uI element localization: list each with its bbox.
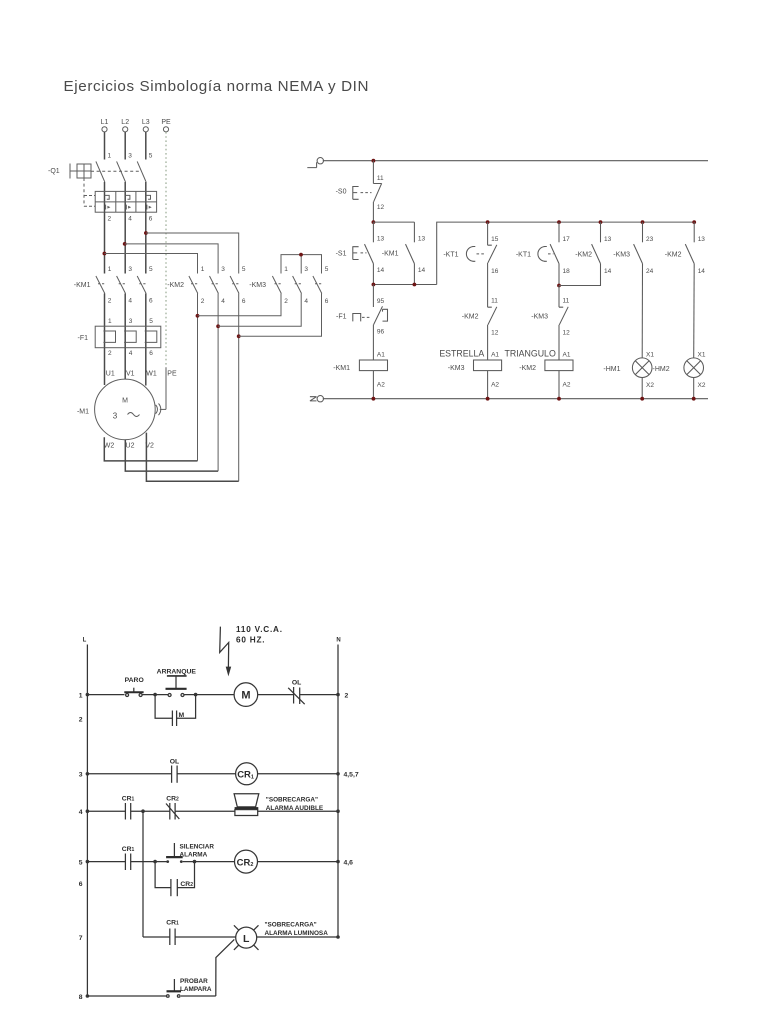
svg-text:A2: A2 — [491, 381, 499, 388]
wire S0 top lead — [372, 161, 374, 184]
rung number 7 — [79, 935, 83, 942]
pin 95 — [377, 298, 385, 305]
wire rung1 a — [87, 694, 124, 696]
KM1 pins 135 — [108, 266, 153, 273]
contact CR1 NO rung5 — [125, 854, 130, 871]
pushbutton S1 NO — [353, 222, 374, 264]
svg-text:-F1: -F1 — [78, 335, 89, 342]
motor bottom terminal labels — [104, 443, 154, 450]
KM1 pole blades — [96, 276, 147, 294]
node branch M left — [153, 693, 157, 697]
node KT1b bottom — [557, 284, 561, 288]
svg-text:LAMPARA: LAMPARA — [180, 986, 212, 993]
node rail N rung7 — [336, 935, 340, 939]
Q1 trip unit block — [95, 191, 156, 212]
svg-text:L3: L3 — [142, 119, 150, 126]
svg-text:11: 11 — [377, 175, 384, 182]
wire KT1 top lead — [487, 222, 489, 245]
wire KM3b to lamp — [641, 264, 643, 358]
wire L3 tap to KM2 pole5 — [146, 233, 239, 274]
svg-text:15: 15 — [491, 236, 499, 243]
label PARO — [125, 677, 144, 684]
node rail N rung3 — [336, 772, 340, 776]
Q1 magnetic elements — [106, 205, 152, 210]
svg-text:1: 1 — [108, 318, 112, 325]
coil KM1 — [359, 360, 387, 371]
svg-text:2: 2 — [108, 216, 112, 223]
svg-text:-KM2: -KM2 — [665, 252, 682, 259]
svg-text:7: 7 — [79, 935, 83, 942]
wire rung4 c — [175, 810, 235, 812]
timed contact KT1 NO — [538, 244, 559, 264]
contact CR2 NC rung4 — [166, 803, 179, 820]
label 457 right — [344, 772, 359, 779]
wire W2 run — [104, 437, 197, 461]
pin 12 KM3c — [563, 330, 571, 337]
wire coil KM1 to rail — [372, 371, 374, 399]
svg-text:3: 3 — [79, 772, 83, 779]
svg-text:-KM2: -KM2 — [462, 313, 479, 320]
pin 11 KM2 — [491, 298, 498, 305]
wire rung1 b — [142, 694, 168, 696]
svg-text:1: 1 — [201, 266, 205, 273]
terminal N rail — [310, 396, 324, 402]
pin A1 KM1 — [377, 351, 385, 358]
wire rung5 c — [183, 861, 235, 863]
wire rung4 d — [258, 810, 338, 812]
wire test lamp diagonal — [216, 939, 235, 996]
wire lamp HM1 to rail — [641, 378, 643, 399]
pin 4 — [128, 216, 132, 223]
contact CR1 NO rung4 — [125, 803, 130, 820]
svg-text:-KM2: -KM2 — [519, 365, 536, 372]
svg-text:3: 3 — [304, 266, 308, 273]
contact KM1 aux label — [382, 251, 399, 258]
svg-text:-KM1: -KM1 — [382, 251, 399, 258]
svg-text:SILENCIAR: SILENCIAR — [180, 843, 215, 850]
node sub rail corner KM2b — [692, 220, 696, 224]
label CR2 rung4 — [166, 796, 179, 803]
node bottom HM2 — [692, 397, 696, 401]
node rail N rung1 — [336, 693, 340, 697]
svg-text:-HM2: -HM2 — [653, 366, 670, 373]
contact KM2 aux lamp NO — [685, 222, 694, 264]
thermal relay F1 block — [95, 326, 161, 348]
node bottom KM3 — [486, 397, 490, 401]
svg-text:6: 6 — [149, 216, 153, 223]
svg-text:A1: A1 — [563, 351, 571, 358]
node L2 tap — [123, 242, 127, 246]
svg-text:M: M — [241, 690, 250, 702]
rung number 5 — [79, 859, 83, 866]
svg-text:L2: L2 — [121, 119, 129, 126]
wire rung8 a — [87, 995, 166, 997]
svg-text:13: 13 — [377, 235, 385, 242]
title — [64, 78, 369, 95]
svg-text:1: 1 — [79, 692, 83, 699]
svg-text:PARO: PARO — [125, 677, 144, 684]
node after S0 — [372, 220, 376, 224]
pushbutton S1 label — [336, 251, 347, 258]
thermal relay F1 label — [78, 335, 89, 342]
supply arrow bolt — [220, 627, 232, 677]
svg-text:1: 1 — [284, 266, 288, 273]
svg-text:4: 4 — [128, 216, 132, 223]
svg-text:6: 6 — [242, 298, 246, 305]
pin 5 — [149, 153, 153, 160]
svg-text:CR2: CR2 — [180, 881, 193, 888]
wire KT1 to KM2 contact — [487, 263, 489, 307]
wire rung3 a — [87, 773, 171, 775]
rung number 3 — [79, 772, 83, 779]
svg-text:1: 1 — [108, 153, 112, 160]
contact KM3 NC — [559, 286, 568, 325]
node KM1 bottom — [413, 283, 417, 287]
KM3 star bus — [281, 255, 322, 274]
svg-text:A2: A2 — [563, 381, 571, 388]
svg-text:W1: W1 — [146, 371, 157, 378]
svg-text:-Q1: -Q1 — [48, 168, 60, 175]
svg-text:W2: W2 — [104, 443, 115, 450]
node sub rail KT1 — [486, 220, 490, 224]
label SOBRECARGA AUDIBLE — [266, 797, 324, 812]
svg-text:2: 2 — [108, 350, 112, 357]
contact KM3 23-24 label — [613, 252, 630, 259]
svg-text:-KM1: -KM1 — [74, 282, 91, 289]
svg-text:-M1: -M1 — [77, 409, 89, 416]
wire PE dotted — [165, 132, 167, 367]
pin 13 KM2b — [698, 236, 706, 243]
wire to coil KM2 — [558, 325, 560, 360]
svg-text:PE: PE — [161, 119, 171, 126]
node rail rung1 — [86, 693, 90, 697]
label SOBRECARGA LUMINOSA — [265, 922, 329, 937]
wire lamp HM2 to rail — [693, 378, 695, 399]
breaker Q1 pole 2 blade — [117, 161, 126, 182]
pushbutton SILENCIAR NO — [166, 843, 183, 863]
pin 15 — [491, 236, 499, 243]
Q1 thermal elements — [105, 195, 151, 199]
motor M1 — [95, 379, 156, 440]
svg-text:CR1: CR1 — [122, 796, 135, 803]
svg-text:12: 12 — [491, 330, 499, 337]
svg-text:4: 4 — [304, 298, 308, 305]
svg-text:-KM3: -KM3 — [613, 252, 630, 259]
timed contact KT1 NC — [466, 245, 496, 263]
terminal L3 — [142, 119, 150, 132]
svg-text:14: 14 — [604, 268, 612, 275]
wire top rail — [323, 160, 708, 162]
svg-text:5: 5 — [149, 153, 153, 160]
svg-text:5: 5 — [149, 266, 153, 273]
svg-text:X1: X1 — [698, 351, 706, 358]
pin A2 KM2 — [563, 381, 571, 388]
svg-text:X1: X1 — [646, 351, 654, 358]
svg-text:14: 14 — [698, 268, 706, 275]
node KM3 bus — [299, 253, 303, 257]
wire bottom rail — [323, 398, 708, 400]
svg-text:5: 5 — [242, 266, 246, 273]
svg-text:-HM1: -HM1 — [603, 366, 620, 373]
wire rung7 b — [175, 936, 236, 938]
svg-text:U1: U1 — [106, 371, 115, 378]
svg-text:3: 3 — [221, 266, 225, 273]
pin X2 HM2 — [698, 382, 706, 389]
pin A1 KM2 — [563, 351, 571, 358]
breaker Q1 pole 1 blade — [96, 161, 105, 182]
contactor KM3 label — [249, 282, 266, 289]
lamp HM1 label — [603, 366, 620, 373]
svg-text:Ejercicios Simbología norma NE: Ejercicios Simbología norma NEMA y DIN — [64, 78, 369, 95]
node KM2-3 KM3 tap — [216, 324, 220, 328]
wire phases block to KM1 — [105, 212, 146, 273]
label ESTRELLA — [439, 349, 484, 359]
svg-text:L: L — [243, 933, 250, 945]
wire PE to motor frame — [156, 367, 166, 415]
node KM2-5 KM3 tap — [237, 334, 241, 338]
wire rung4 b — [131, 810, 170, 812]
timed contact KT1 NO label — [516, 252, 531, 259]
svg-text:11: 11 — [563, 298, 570, 305]
wire rung8 b — [181, 995, 216, 997]
pin 23 — [646, 236, 654, 243]
node L1 tap — [103, 252, 107, 256]
svg-text:4,5,7: 4,5,7 — [344, 772, 359, 779]
node S1 bottom — [372, 283, 376, 287]
pin A2 KM1 — [377, 381, 385, 388]
contactor KM2 label — [167, 282, 184, 289]
node rail rung3 — [86, 772, 90, 776]
svg-text:6: 6 — [79, 881, 83, 888]
KM3 pins 135 — [284, 266, 329, 273]
svg-text:"SOBRECARGA": "SOBRECARGA" — [265, 922, 317, 929]
node branch CR2 right — [193, 860, 197, 864]
svg-text:4: 4 — [129, 350, 133, 357]
wire coil KM2 to rail — [558, 371, 560, 399]
label SILENCIAR ALARMA — [180, 843, 215, 858]
svg-text:3: 3 — [129, 318, 133, 325]
svg-text:4,6: 4,6 — [344, 859, 354, 866]
contact KM2 NC label — [462, 313, 479, 320]
svg-text:17: 17 — [563, 236, 571, 243]
pin 2 — [108, 216, 112, 223]
node rail rung5 — [86, 860, 90, 864]
node rail S0 — [372, 159, 376, 163]
pin A1 KM3 — [491, 351, 499, 358]
motor terminal labels — [106, 371, 177, 378]
label OL rung1 — [292, 680, 301, 687]
wire rung5 a — [87, 861, 125, 863]
svg-text:13: 13 — [418, 235, 426, 242]
KM3 pole blades — [272, 276, 323, 294]
pin 13 S1 — [377, 235, 385, 242]
svg-text:-KM2: -KM2 — [167, 282, 184, 289]
svg-text:5: 5 — [79, 859, 83, 866]
contact KM2 NC — [488, 307, 497, 325]
KM3 pins 246 — [284, 298, 329, 305]
terminal L rail — [307, 158, 323, 168]
node rail rung4 — [86, 809, 90, 813]
wire rung7 a — [143, 936, 170, 938]
svg-text:-KM3: -KM3 — [531, 313, 548, 320]
svg-text:CR1: CR1 — [166, 920, 179, 927]
svg-text:14: 14 — [377, 267, 385, 274]
svg-text:6: 6 — [325, 298, 329, 305]
KM2 pole blades — [189, 276, 240, 294]
wire rung1 c — [184, 694, 234, 696]
breaker Q1 pole 3 blade — [137, 161, 146, 182]
wire L3 drop — [145, 132, 147, 160]
label 110 VCA — [236, 625, 283, 644]
svg-text:2: 2 — [284, 298, 288, 305]
terminal L1 — [101, 119, 109, 132]
wire to coil KM3 — [487, 325, 489, 360]
rung number 2 — [79, 716, 83, 723]
breaker Q1 operator box — [70, 164, 91, 179]
svg-text:L1: L1 — [101, 119, 109, 126]
svg-text:M: M — [122, 398, 128, 405]
label TRIANGULO — [504, 349, 555, 359]
svg-text:23: 23 — [646, 236, 654, 243]
overload OL NC rung1 — [288, 687, 305, 704]
pin 12 KM2 — [491, 330, 499, 337]
coil KM3 label — [448, 365, 465, 372]
svg-text:14: 14 — [418, 267, 426, 274]
node sub rail KM3b — [641, 220, 645, 224]
motor M1 label — [77, 409, 89, 416]
coil M — [234, 683, 258, 707]
svg-text:8: 8 — [79, 994, 83, 1001]
node branch CR2 left — [153, 860, 157, 864]
terminal PE — [161, 119, 171, 132]
coil KM3 — [474, 360, 502, 371]
node rail N rung4 — [336, 809, 340, 813]
pushbutton ARRANQUE NO — [166, 676, 187, 697]
horn alarm audible — [234, 794, 259, 816]
pushbutton PROBAR NO — [167, 979, 182, 997]
wire rung7 c — [257, 936, 338, 938]
coil CR1 — [236, 763, 258, 785]
F1 pins 135 — [108, 318, 153, 325]
pin 14 KM1 — [418, 267, 426, 274]
svg-text:12: 12 — [377, 204, 385, 211]
lamp L alarma luminosa — [234, 925, 259, 950]
pin 11 — [377, 175, 384, 182]
svg-text:OL: OL — [292, 680, 301, 687]
pin 17 — [563, 236, 571, 243]
pin 18 — [563, 268, 571, 275]
wire V2 run — [146, 433, 238, 482]
wire branch rung4 to rung7 — [142, 811, 144, 937]
pin X1 HM1 — [646, 351, 654, 358]
svg-text:-S0: -S0 — [336, 188, 347, 195]
wire L2 tap to KM2 pole3 — [125, 244, 218, 274]
svg-text:ALARMA LUMINOSA: ALARMA LUMINOSA — [265, 930, 329, 937]
coil KM2 label — [519, 365, 536, 372]
label L rail — [83, 638, 87, 644]
lamp HM2 label — [653, 366, 670, 373]
svg-text:3: 3 — [128, 153, 132, 160]
wire KM2 pole1 down — [197, 294, 199, 461]
svg-text:M: M — [179, 712, 185, 719]
timed contact KT1 NC label — [443, 252, 458, 259]
wire L1 tap to KM2 pole1 — [104, 254, 197, 274]
node sub rail KM2c — [599, 220, 603, 224]
svg-text:5: 5 — [149, 318, 153, 325]
pin 11 KM3c — [563, 298, 570, 305]
label 46 right — [344, 859, 354, 866]
thermal contact F1 NC — [353, 285, 388, 325]
wire to KM3 pole3 — [218, 294, 301, 327]
label OL rung3 — [170, 758, 179, 765]
pin A2 KM3 — [491, 381, 499, 388]
svg-text:ESTRELLA: ESTRELLA — [439, 349, 484, 359]
label PROBAR LAMPARA — [180, 978, 212, 993]
pin 96 — [377, 329, 385, 336]
svg-text:4: 4 — [221, 298, 225, 305]
wire F1 to coil — [372, 325, 374, 360]
node bottom KM1 — [372, 397, 376, 401]
wire rung1 e — [300, 694, 338, 696]
svg-text:110 V.C.A.: 110 V.C.A. — [236, 625, 283, 634]
KM1 pins 246 — [108, 297, 153, 304]
wire KT1b top lead — [558, 222, 560, 242]
wire rung3 b — [177, 773, 236, 775]
svg-text:X2: X2 — [646, 382, 654, 389]
wire rung3 c — [258, 773, 338, 775]
svg-text:95: 95 — [377, 298, 385, 305]
wire KM2 pole5 down — [238, 294, 240, 482]
label CR1 rung7 — [166, 920, 179, 927]
node rail rung8 — [86, 994, 90, 998]
wire rung1 d — [258, 694, 294, 696]
node bottom HM1 — [640, 397, 644, 401]
wire rung4 a — [87, 810, 125, 812]
svg-text:"SOBRECARGA": "SOBRECARGA" — [266, 797, 318, 804]
pin 14 KM2b — [698, 268, 706, 275]
pushbutton S0 label — [336, 188, 347, 195]
pin 1 — [108, 153, 112, 160]
contact KM3 NC label — [531, 313, 548, 320]
wire parallel top — [373, 222, 414, 242]
wire KM1 to F1 — [105, 294, 146, 348]
pin 13 KM2c — [604, 236, 612, 243]
pin 24 — [646, 268, 654, 275]
wire pole drops to trip block — [105, 182, 146, 212]
node KM2-1 KM3 tap — [196, 314, 200, 318]
node L3 tap — [144, 231, 148, 235]
svg-text:12: 12 — [563, 330, 571, 337]
thermal contact F1 label — [336, 313, 347, 320]
KM2 pins 135 — [201, 266, 246, 273]
wire S1 bottom node — [373, 222, 694, 284]
node branch M right — [194, 693, 198, 697]
breaker Q1 label — [48, 168, 60, 175]
contact OL NO rung3 — [172, 766, 178, 783]
rung number 8 — [79, 994, 83, 1001]
svg-text:TRIANGULO: TRIANGULO — [504, 349, 555, 359]
pushbutton S0 NC — [353, 183, 382, 202]
coil KM2 — [545, 360, 573, 371]
contact KM1 aux NO — [406, 244, 415, 264]
rung number 6 — [79, 881, 83, 888]
svg-text:V1: V1 — [126, 371, 135, 378]
svg-text:A2: A2 — [377, 381, 385, 388]
svg-text:A1: A1 — [377, 351, 385, 358]
parallel branch contact CR2 — [155, 862, 194, 897]
rung number 4 — [79, 809, 83, 816]
coil CR2 — [235, 850, 258, 873]
